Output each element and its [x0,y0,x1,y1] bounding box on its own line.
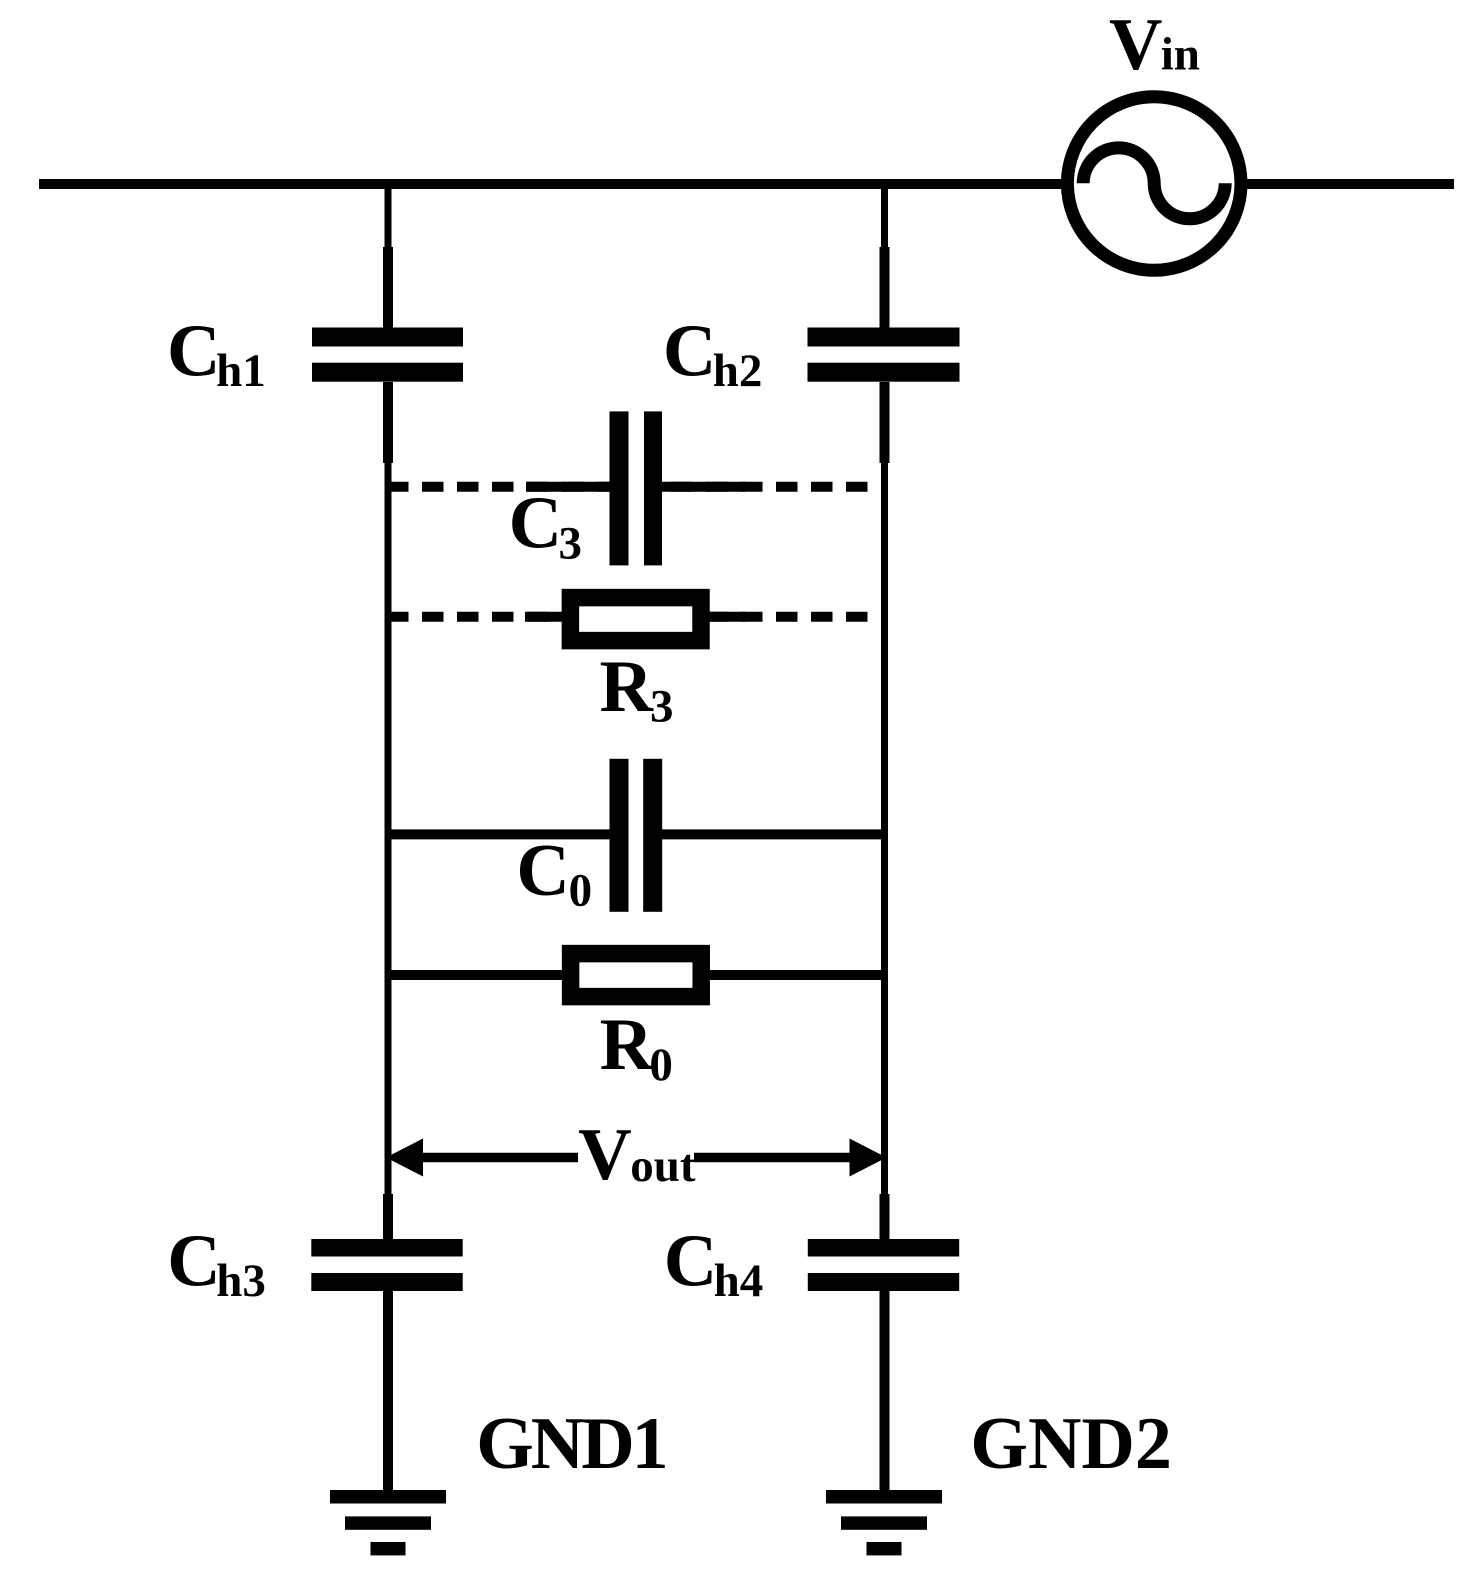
svg-text:C: C [167,311,220,393]
svg-text:GND1: GND1 [476,1403,665,1485]
svg-text:in: in [1161,29,1200,81]
svg-text:GND2: GND2 [970,1403,1171,1485]
svg-text:R: R [600,646,655,728]
svg-text:V: V [1109,4,1162,86]
svg-text:h3: h3 [216,1255,266,1307]
svg-text:h4: h4 [714,1255,764,1307]
svg-text:3: 3 [559,517,583,569]
svg-text:C: C [509,483,562,565]
svg-text:0: 0 [569,865,593,917]
svg-text:0: 0 [649,1039,673,1091]
svg-text:V: V [578,1114,631,1196]
svg-text:R: R [600,1004,655,1086]
svg-text:C: C [663,310,716,392]
svg-text:C: C [516,830,569,912]
svg-text:C: C [167,1221,220,1303]
svg-text:3: 3 [650,680,674,732]
svg-text:h1: h1 [216,345,266,397]
svg-text:out: out [630,1140,696,1192]
svg-text:C: C [664,1221,717,1303]
svg-text:h2: h2 [713,345,763,397]
